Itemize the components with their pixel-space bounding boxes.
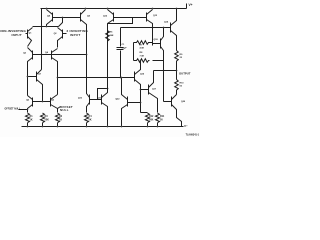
- node dot x162.5 y27: [163, 27, 165, 29]
- transistor Q3: [32, 51, 34, 60]
- svg-text:R2: R2: [59, 115, 63, 118]
- svg-text:Q9: Q9: [87, 16, 91, 18]
- resistor R8: [134, 59, 150, 63]
- wire R8 to Q18 emitter column: [153, 60, 164, 62]
- svg-text:1K: 1K: [59, 118, 62, 121]
- wire Q7 base: [28, 76, 37, 78]
- wire Q7 collector column: [41, 9, 43, 70]
- svg-text:R3: R3: [45, 115, 49, 118]
- svg-text:R11: R11: [160, 115, 165, 118]
- wire node C to output column: [154, 70, 177, 72]
- svg-text:R12: R12: [149, 115, 154, 118]
- node rail dot x174: [176, 8, 178, 10]
- node dot x139.5 y89: [140, 89, 142, 91]
- node dot output: [176, 70, 178, 72]
- svg-text:Q14: Q14: [164, 21, 169, 24]
- node rail dot x151: [152, 8, 154, 10]
- wire Q22 base: [128, 102, 141, 104]
- wire node B line: [58, 77, 135, 79]
- wire V+ rail: [41, 8, 187, 10]
- svg-text:R4: R4: [89, 115, 93, 118]
- wire Q3-Q4 base line: [33, 54, 87, 56]
- node rail dot x146.5: [147, 126, 149, 128]
- svg-text:Q1: Q1: [29, 33, 33, 35]
- svg-text:Q7: Q7: [38, 74, 42, 76]
- svg-text:Q3: Q3: [23, 53, 27, 55]
- svg-text:5K: 5K: [89, 118, 92, 121]
- resistor R1: [26, 113, 30, 123]
- svg-text:C1: C1: [122, 44, 126, 46]
- node rail dot x106.5: [107, 126, 109, 128]
- svg-text:Q4: Q4: [45, 51, 49, 54]
- transistor Q7: [36, 72, 38, 82]
- wire VBE right riser: [152, 28, 154, 43]
- wire V- rail: [22, 126, 184, 128]
- svg-text:Q2: Q2: [54, 33, 58, 35]
- node rail dot x86: [86, 126, 88, 128]
- svg-text:R8: R8: [140, 52, 144, 54]
- resistor R9: [175, 51, 179, 62]
- svg-text:Q20: Q20: [181, 101, 186, 103]
- svg-text:TL/H/9341-1: TL/H/9341-1: [186, 134, 200, 137]
- wire Q12-Q13 base line: [114, 17, 147, 19]
- wire Q17 base: [141, 89, 149, 91]
- wire inverting input lead: [63, 33, 67, 35]
- resistor R4: [85, 113, 89, 123]
- svg-text:Q13: Q13: [153, 15, 158, 17]
- svg-text:V−: V−: [184, 124, 188, 128]
- svg-text:Q17: Q17: [152, 89, 157, 91]
- node rail dots bottom left: [27, 126, 29, 128]
- transistor Q9: [80, 13, 82, 22]
- wire offset null 2 tick: [58, 107, 61, 109]
- transistor Q5: [32, 98, 34, 107]
- svg-text:50: 50: [180, 86, 183, 88]
- resistor R11 50: [156, 113, 160, 123]
- wire node C line: [121, 27, 171, 29]
- svg-text:Q22: Q22: [115, 99, 120, 101]
- transistor Q8: [52, 13, 54, 22]
- transistor Q1: [27, 30, 29, 39]
- node dot x119 y77: [120, 77, 122, 79]
- wire Q20 base: [164, 101, 172, 103]
- transistor Q11: [101, 95, 103, 105]
- node dot x106.5 y88: [107, 88, 109, 90]
- transistor Q12: [113, 13, 115, 22]
- node dot x121 y77: [121, 77, 123, 79]
- node dot x41.5 y101: [42, 101, 44, 103]
- node dot x151.5 y27: [152, 27, 154, 29]
- node dot x56.5 y77: [57, 77, 59, 79]
- svg-text:R10: R10: [180, 83, 185, 85]
- node rail dot x85: [85, 8, 87, 10]
- svg-text:OUTPUT: OUTPUT: [179, 72, 191, 76]
- wire Q8-Q9 base line: [53, 17, 81, 19]
- resistor R2: [56, 113, 60, 123]
- transistor Q20: [171, 97, 173, 107]
- svg-text:OFFSET NULL: OFFSET NULL: [5, 109, 21, 111]
- svg-text:39K: 39K: [110, 35, 114, 37]
- node dot x46 y26: [46, 26, 48, 28]
- svg-text:Q6: Q6: [51, 100, 55, 102]
- node dot x41.5 y54: [41, 54, 43, 56]
- wire non-inverting input lead: [26, 33, 28, 35]
- svg-text:50K: 50K: [149, 118, 154, 121]
- node V+ stub: [186, 4, 188, 9]
- node dot x86 y54: [86, 54, 88, 56]
- node rail dot x121: [121, 126, 123, 128]
- svg-text:4.5K: 4.5K: [140, 47, 145, 50]
- node dot x27 y108.5: [27, 109, 29, 111]
- svg-text:50: 50: [160, 118, 163, 121]
- svg-text:R7: R7: [140, 45, 144, 47]
- svg-text:7.5K: 7.5K: [140, 56, 145, 58]
- capacitor C1: [120, 28, 122, 47]
- wire Q1-Q2 collector line: [33, 26, 59, 28]
- svg-text:Q12: Q12: [103, 16, 108, 18]
- svg-text:Q8: Q8: [47, 16, 51, 18]
- node dot x162.5 y70: [163, 70, 165, 72]
- wire Q5-Q6 base line: [33, 101, 51, 103]
- wire Q12 diode tie: [108, 18, 133, 24]
- transistor Q10: [89, 95, 91, 105]
- transistor Q22: [127, 97, 129, 107]
- svg-text:R1: R1: [30, 115, 34, 118]
- svg-text:R9: R9: [180, 54, 184, 56]
- svg-text:NULL: NULL: [60, 108, 69, 112]
- node dot x27 y76: [27, 76, 29, 78]
- wire Q16 emitter jog to R12: [141, 112, 148, 114]
- node dot x139.5 y101.5: [140, 102, 142, 104]
- svg-text:25: 25: [180, 57, 183, 59]
- node dot x41.5 y26: [41, 26, 43, 28]
- node rail dot x46: [46, 8, 48, 10]
- svg-text:Q10: Q10: [78, 98, 83, 100]
- resistor R3: [41, 113, 45, 123]
- resistor R7: [134, 41, 153, 45]
- wire offset null 1 lead: [19, 109, 28, 111]
- svg-text:R5: R5: [110, 32, 114, 34]
- svg-text:Q5: Q5: [26, 100, 30, 102]
- transistor Q16: [134, 72, 136, 82]
- resistor R10: [175, 80, 179, 91]
- svg-text:V+: V+: [189, 3, 193, 7]
- wire Q18 base: [153, 43, 161, 45]
- resistor R12 50K: [146, 113, 150, 123]
- svg-text:Q16: Q16: [140, 74, 145, 76]
- node rail dot x107: [107, 8, 109, 10]
- resistor R5: [106, 31, 110, 42]
- wire Q10-Q11 base line: [90, 99, 102, 101]
- wire base tie to collector line: [59, 18, 63, 27]
- transistor Q17: [148, 85, 150, 95]
- svg-text:30pF: 30pF: [122, 48, 128, 50]
- svg-text:INPUT: INPUT: [12, 33, 23, 37]
- node dot x139.5 y60: [140, 60, 142, 62]
- wire Q11 diode tie: [98, 89, 108, 100]
- transistor Q18: [160, 39, 162, 49]
- transistor Q6: [50, 98, 52, 107]
- transistor Q14: [170, 23, 172, 33]
- wire VBE left side: [133, 43, 135, 61]
- transistor Q2: [62, 30, 64, 39]
- svg-text:50K: 50K: [45, 118, 50, 121]
- node base tie dot: [62, 17, 64, 19]
- transistor Q13: [146, 13, 148, 22]
- svg-text:Q18: Q18: [154, 39, 159, 41]
- node rail dot x156.5: [157, 126, 159, 128]
- svg-text:INPUT: INPUT: [70, 33, 81, 37]
- transistor Q4: [51, 51, 53, 60]
- svg-text:1K: 1K: [30, 118, 33, 121]
